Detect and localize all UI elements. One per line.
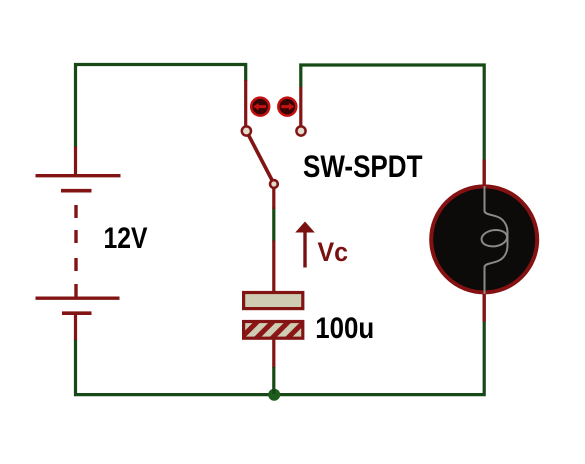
pin top bbox=[483, 160, 486, 188]
pin bottom bbox=[272, 338, 275, 368]
capacitor C1 (100u) bbox=[244, 241, 303, 369]
svg-text:100u: 100u bbox=[315, 312, 374, 345]
filament bbox=[485, 186, 508, 294]
pin bottom bbox=[74, 313, 77, 340]
terminal circle right bbox=[296, 126, 305, 135]
plate long top bbox=[36, 174, 121, 177]
pin left (pole side) bbox=[244, 80, 247, 126]
wire: capacitor bottom to junction bbox=[272, 367, 275, 394]
plate long bottom bbox=[36, 297, 120, 300]
wire bottom: battery - to lamp bottom bbox=[76, 321, 485, 395]
label Vc bbox=[318, 236, 349, 267]
junction node (cap/battery/lamp net) bbox=[268, 389, 280, 401]
pin top bbox=[272, 241, 275, 294]
pin bottom bbox=[483, 292, 486, 322]
toggle button right (red, arrow right) bbox=[278, 98, 296, 116]
Vc arrow bbox=[295, 222, 315, 268]
toggle button left (red, arrow left) bbox=[251, 98, 269, 116]
terminal circle left bbox=[242, 126, 251, 135]
lever bbox=[249, 135, 274, 182]
plate short bottom bbox=[62, 311, 92, 315]
battery B1 bbox=[36, 147, 121, 341]
label 100u bbox=[315, 312, 374, 345]
svg-text:SW-SPDT: SW-SPDT bbox=[303, 149, 423, 184]
filament loop bbox=[480, 228, 508, 248]
pole pin down bbox=[272, 187, 275, 209]
wire top-right: switch throw terminal to lamp top bbox=[301, 65, 484, 161]
svg-text:12V: 12V bbox=[104, 222, 148, 255]
svg-text:Vc: Vc bbox=[318, 236, 349, 267]
pin top bbox=[74, 147, 77, 176]
plate top (positive) bbox=[244, 293, 303, 309]
wire: switch pole to capacitor bbox=[272, 208, 275, 242]
plate short top bbox=[61, 189, 92, 193]
lamp L1 bbox=[431, 160, 537, 322]
switch SW-SPDT bbox=[242, 80, 306, 209]
pole circle bbox=[270, 180, 278, 188]
bulb body bbox=[431, 186, 537, 292]
wire top-left: battery + to switch pole terminal bbox=[76, 65, 246, 149]
label SW-SPDT bbox=[303, 149, 423, 184]
plate bottom (hatched negative) bbox=[244, 322, 303, 339]
dashed cell link bbox=[74, 205, 77, 297]
pin right (throw) bbox=[299, 87, 302, 126]
label 12V bbox=[104, 222, 148, 255]
